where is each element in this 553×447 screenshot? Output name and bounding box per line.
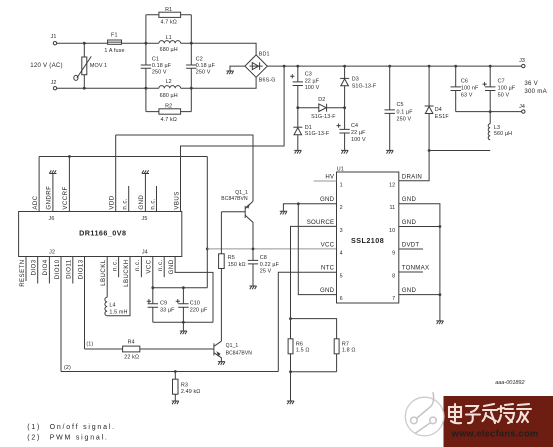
- svg-text:C7: C7: [498, 78, 505, 84]
- wire VDD rail to Q1 emitter: [116, 135, 253, 201]
- svg-text:9: 9: [392, 250, 395, 256]
- svg-text:1.5 mH: 1.5 mH: [109, 309, 127, 315]
- ground below R6 R7: [287, 401, 294, 404]
- svg-text:63 V: 63 V: [461, 92, 473, 98]
- svg-text:LBUCKL: LBUCKL: [100, 259, 107, 286]
- junction dot VCC at C8: [252, 248, 255, 251]
- inductor L2: [159, 79, 181, 99]
- wire C10 ground drop: [182, 322, 184, 331]
- svg-text:DIO13: DIO13: [77, 259, 84, 279]
- svg-text:150 kΩ: 150 kΩ: [228, 262, 246, 268]
- junction dot pin2 link: [297, 202, 300, 205]
- svg-text:ADC: ADC: [32, 195, 39, 209]
- svg-text:C4: C4: [351, 123, 358, 129]
- svg-text:5: 5: [340, 273, 343, 279]
- svg-text:680 µH: 680 µH: [160, 47, 178, 53]
- junction dots VCC net: [151, 248, 208, 324]
- svg-text:L1: L1: [166, 35, 172, 41]
- svg-text:300 mA: 300 mA: [524, 88, 547, 95]
- svg-text:25 V: 25 V: [260, 269, 272, 275]
- svg-text:J2: J2: [49, 249, 55, 255]
- junction dot VCCRF rail: [68, 155, 71, 158]
- svg-text:1.5 Ω: 1.5 Ω: [296, 348, 310, 354]
- ground above GND top: [142, 170, 149, 173]
- svg-text:C9: C9: [160, 301, 167, 307]
- ground above GNDRF: [49, 170, 56, 173]
- resistor R3: [173, 372, 201, 402]
- IC U1 SSL2108: [337, 167, 399, 303]
- svg-text:3: 3: [340, 228, 343, 234]
- svg-text:220 µF: 220 µF: [190, 308, 208, 314]
- svg-text:DIO11: DIO11: [66, 259, 73, 279]
- svg-text:(1): (1): [27, 424, 41, 431]
- label output rating: [524, 80, 547, 95]
- svg-text:R7: R7: [342, 341, 349, 347]
- svg-text:1.8 Ω: 1.8 Ω: [342, 348, 356, 354]
- svg-text:DIO10: DIO10: [54, 259, 61, 279]
- junction dot source rail: [289, 317, 292, 320]
- connector J2 terminal: [51, 80, 57, 90]
- svg-text:B6S-G: B6S-G: [259, 77, 276, 83]
- svg-text:C5: C5: [397, 102, 404, 108]
- svg-text:aaa-001892: aaa-001892: [495, 380, 524, 386]
- ground at bridge left: [226, 71, 233, 74]
- wire J4 rail: [456, 111, 522, 113]
- pin 7 GND wire: [392, 287, 440, 302]
- wire R6 R7 top rail: [291, 319, 337, 339]
- pin 1 HV: [314, 173, 343, 188]
- svg-text:DIO3: DIO3: [31, 259, 38, 275]
- svg-text:www.elecfans.com: www.elecfans.com: [451, 429, 539, 439]
- resistor R4: [123, 339, 140, 360]
- pin LBUCKL: [100, 257, 107, 298]
- svg-text:BC847BVN: BC847BVN: [226, 350, 253, 356]
- svg-text:4: 4: [340, 250, 343, 256]
- svg-text:100 V: 100 V: [305, 85, 320, 91]
- svg-text:On/off signal.: On/off signal.: [50, 424, 116, 431]
- svg-text:VCC: VCC: [146, 259, 153, 273]
- pin VDD: [109, 135, 116, 212]
- svg-text:VBUS: VBUS: [173, 191, 180, 209]
- svg-text:2.49 kΩ: 2.49 kΩ: [181, 389, 201, 395]
- svg-text:HV: HV: [325, 173, 335, 180]
- svg-text:S1G-13-F: S1G-13-F: [352, 83, 377, 89]
- pin RESETN: [19, 257, 26, 287]
- svg-text:8: 8: [392, 273, 395, 279]
- wire VCC row to U1 pin 4: [207, 248, 336, 250]
- diode D3: [340, 66, 377, 108]
- junction dots AC filter: [83, 42, 193, 90]
- note on/off signal: [27, 424, 116, 431]
- pin 2 GND wire and ground: [283, 196, 342, 211]
- watermark chinese glyphs: [449, 404, 531, 423]
- resistor R1: [146, 7, 191, 25]
- svg-text:U1: U1: [337, 167, 344, 173]
- svg-text:4.7 kΩ: 4.7 kΩ: [160, 117, 176, 123]
- wire bottom AC line J2 to bridge: [57, 77, 256, 88]
- ground below C5: [386, 150, 393, 153]
- wire VBUS drop from DC rail: [181, 66, 285, 211]
- svg-text:250 V: 250 V: [196, 70, 211, 76]
- svg-text:0.22 µF: 0.22 µF: [260, 262, 280, 268]
- inductor L1: [159, 35, 181, 53]
- svg-text:GND: GND: [402, 219, 417, 226]
- pin DIO10 wire to PWM line: [54, 257, 61, 372]
- wire bridge left to ground: [230, 66, 245, 71]
- svg-text:1: 1: [340, 183, 343, 189]
- pin VCC wire to C9: [146, 257, 153, 304]
- pin n.c. J4a: [111, 257, 118, 278]
- svg-text:GND: GND: [402, 196, 417, 203]
- IC module DR1166_0V8: [19, 212, 182, 257]
- pin DIO11: [66, 257, 73, 284]
- svg-text:SOURCE: SOURCE: [307, 219, 335, 226]
- ground at pin 2: [280, 211, 287, 214]
- svg-text:R3: R3: [181, 383, 188, 389]
- svg-text:BD1: BD1: [259, 51, 270, 57]
- svg-text:GND: GND: [320, 287, 335, 294]
- note PWM signal: [27, 435, 108, 442]
- svg-text:C10: C10: [190, 301, 200, 307]
- connector J1 terminal: [51, 34, 57, 45]
- svg-text:S1G-13-F: S1G-13-F: [311, 114, 336, 120]
- fuse F1: [104, 33, 124, 54]
- watermark logo circle: [405, 392, 444, 436]
- pin n.c. J5a: [122, 186, 129, 212]
- resistor R2: [146, 104, 191, 124]
- ground below C8: [249, 286, 256, 289]
- svg-text:D3: D3: [352, 77, 359, 83]
- pin n.c. J4b: [134, 257, 141, 278]
- svg-text:DR1166_0V8: DR1166_0V8: [79, 228, 126, 237]
- svg-text:J6: J6: [49, 216, 55, 222]
- svg-text:11: 11: [389, 205, 395, 211]
- capacitor C5: [385, 66, 414, 150]
- svg-text:250 V: 250 V: [397, 116, 412, 122]
- svg-text:C1: C1: [152, 56, 159, 62]
- capacitor C6: [451, 66, 479, 112]
- svg-text:Q1_1: Q1_1: [235, 190, 248, 196]
- wire C9 C10 bottom rail: [153, 321, 213, 323]
- pin 6 GND label: [320, 287, 343, 302]
- svg-text:DVDT: DVDT: [402, 241, 420, 248]
- svg-text:(2): (2): [27, 435, 41, 442]
- svg-text:D4: D4: [435, 107, 442, 113]
- svg-text:VCCRF: VCCRF: [62, 186, 69, 209]
- svg-text:250 V: 250 V: [152, 70, 167, 76]
- wire PWM NTC line: [61, 371, 278, 373]
- svg-text:C2: C2: [196, 56, 203, 62]
- svg-text:0.18 µF: 0.18 µF: [196, 63, 216, 69]
- ground below R3: [172, 401, 179, 404]
- svg-text:560 µH: 560 µH: [494, 131, 512, 137]
- capacitor C10: [176, 288, 208, 323]
- junction dots GND bus: [439, 225, 442, 296]
- wire VCC rail horizontal to riser: [153, 157, 208, 288]
- resistor R7: [334, 339, 355, 372]
- capacitor C7: [483, 66, 516, 112]
- svg-text:R1: R1: [165, 7, 172, 13]
- capacitor C9: [147, 299, 175, 322]
- ground below Q1 lower: [218, 362, 225, 365]
- svg-text:C3: C3: [305, 72, 312, 78]
- pin 3 SOURCE wire: [291, 219, 343, 339]
- svg-text:100 V: 100 V: [351, 137, 366, 143]
- svg-text:GND: GND: [168, 259, 175, 274]
- pin DIO13 wire to on/off line: [77, 257, 84, 350]
- ground below C10: [180, 331, 187, 334]
- svg-text:1 A fuse: 1 A fuse: [104, 48, 124, 54]
- wire ADC/VCCRF rail: [39, 156, 207, 158]
- diode D1: [293, 108, 330, 151]
- svg-text:DIO4: DIO4: [42, 259, 49, 275]
- svg-text:0.1 µF: 0.1 µF: [397, 109, 414, 115]
- svg-text:J1: J1: [51, 34, 57, 40]
- resistor R6: [288, 339, 309, 372]
- svg-text:GNDRF: GNDRF: [46, 186, 53, 210]
- wire DC+ rail to J3: [267, 65, 521, 67]
- svg-text:J5: J5: [142, 216, 148, 222]
- svg-text:R2: R2: [165, 104, 172, 110]
- wire R4 to Q1 base: [140, 348, 214, 350]
- svg-text:VCC: VCC: [321, 241, 335, 248]
- svg-text:4.7 kΩ: 4.7 kΩ: [160, 20, 176, 26]
- svg-text:F1: F1: [111, 33, 118, 39]
- svg-text:n.c.: n.c.: [134, 259, 141, 271]
- wire on/off line to R4: [85, 348, 123, 350]
- inductor L3: [488, 112, 512, 140]
- svg-text:S1G-13-F: S1G-13-F: [305, 131, 330, 137]
- svg-text:7: 7: [392, 296, 395, 302]
- svg-text:GND: GND: [320, 196, 335, 203]
- varistor MOV1: [74, 43, 107, 88]
- svg-text:(2): (2): [64, 365, 71, 371]
- svg-text:C8: C8: [260, 255, 267, 261]
- pin DIO3: [31, 257, 38, 284]
- svg-text:D1: D1: [305, 125, 312, 131]
- pin 4 VCC label: [321, 241, 343, 256]
- svg-text:RESETN: RESETN: [19, 259, 26, 286]
- svg-text:NTC: NTC: [321, 265, 335, 272]
- svg-text:SSL2108: SSL2108: [351, 236, 384, 245]
- capacitor C8: [248, 249, 280, 286]
- svg-text:L4: L4: [109, 302, 115, 308]
- svg-text:120 V (AC): 120 V (AC): [30, 62, 63, 69]
- svg-text:J2: J2: [51, 80, 57, 86]
- svg-text:100 nF: 100 nF: [461, 85, 479, 91]
- svg-text:J3: J3: [519, 58, 525, 64]
- svg-text:n.c.: n.c.: [122, 198, 129, 210]
- svg-text:50 V: 50 V: [498, 92, 510, 98]
- pin 10 GND wire: [389, 219, 440, 234]
- junction dot R3 top: [174, 370, 177, 373]
- capacitor C2: [186, 15, 216, 112]
- resistor R5: [219, 212, 246, 341]
- svg-text:n.c.: n.c.: [149, 198, 156, 210]
- capacitor C4: [337, 108, 367, 151]
- svg-text:R4: R4: [128, 339, 135, 345]
- transistor Q1_1 upper BC847BVN: [221, 190, 253, 249]
- svg-text:J4: J4: [519, 104, 525, 110]
- pin DIO4: [42, 257, 49, 284]
- wire L4 loop to LBUCKH: [107, 257, 130, 316]
- svg-text:36 V: 36 V: [524, 80, 538, 87]
- svg-text:D2: D2: [318, 97, 325, 103]
- svg-text:TONMAX: TONMAX: [402, 265, 429, 272]
- pin ADC: [32, 157, 39, 212]
- svg-text:GND: GND: [138, 195, 145, 210]
- svg-text:680 µH: 680 µH: [160, 93, 178, 99]
- ground below GND bus: [436, 321, 443, 324]
- connector J4 terminal: [519, 104, 525, 113]
- diode D4: [425, 66, 450, 150]
- svg-text:22 µF: 22 µF: [305, 79, 320, 85]
- svg-text:R6: R6: [296, 341, 303, 347]
- svg-text:2: 2: [340, 205, 343, 211]
- pin GND bottom wire: [168, 257, 213, 323]
- capacitor C3: [290, 66, 320, 108]
- svg-text:MOV 1: MOV 1: [90, 63, 107, 69]
- pin VCCRF: [62, 157, 69, 212]
- pin 8 TONMAX stub: [392, 265, 429, 280]
- svg-text:PWM signal.: PWM signal.: [50, 435, 109, 442]
- capacitor C1: [141, 15, 172, 112]
- svg-text:LBUCKH: LBUCKH: [123, 259, 130, 286]
- wire top AC line J1 to bridge: [57, 43, 256, 55]
- junction dot R6 bottom: [289, 370, 292, 373]
- pin 5 NTC wire: [278, 265, 342, 372]
- svg-text:L2: L2: [166, 79, 172, 85]
- wire R6 R7 bottom rail and ground drop: [291, 372, 337, 401]
- transistor Q1_1 lower BC847BVN: [214, 341, 252, 361]
- svg-text:10: 10: [389, 228, 395, 234]
- pin GNDRF: [46, 174, 53, 212]
- svg-text:BC847BVN: BC847BVN: [221, 196, 248, 202]
- svg-text:C6: C6: [461, 78, 468, 84]
- pin 11 GND wire: [389, 196, 439, 321]
- pin n.c. J5b: [149, 186, 156, 212]
- svg-text:22 kΩ: 22 kΩ: [124, 355, 139, 361]
- inductor L4: [105, 297, 128, 315]
- ground below C4: [341, 150, 348, 153]
- wire D4 column to DRAIN pin and L3 bottom: [399, 151, 490, 181]
- bridge rectifier BD1: [245, 51, 276, 83]
- svg-text:6: 6: [340, 296, 343, 302]
- svg-text:L3: L3: [494, 125, 500, 131]
- svg-text:Q1_1: Q1_1: [226, 343, 239, 349]
- diode D2: [298, 97, 345, 120]
- svg-text:100 µF: 100 µF: [498, 85, 516, 91]
- svg-text:33 µF: 33 µF: [160, 308, 175, 314]
- ground below D1: [294, 150, 301, 153]
- pin 12 DRAIN label: [389, 173, 422, 188]
- pin GND top: [138, 174, 145, 212]
- svg-text:n.c.: n.c.: [111, 259, 118, 271]
- svg-text:DRAIN: DRAIN: [402, 173, 422, 180]
- svg-text:n.c.: n.c.: [157, 259, 164, 271]
- svg-text:GND: GND: [402, 287, 417, 294]
- svg-text:ES1F: ES1F: [435, 114, 450, 120]
- watermark red box: [444, 396, 553, 447]
- junction dots DC rail: [283, 65, 492, 152]
- wire GND pins 2-6 link: [298, 204, 336, 295]
- svg-text:12: 12: [389, 183, 395, 189]
- pin n.c. J4c: [157, 257, 164, 278]
- svg-text:0.18 µF: 0.18 µF: [152, 63, 172, 69]
- connector J3 terminal: [519, 58, 525, 68]
- svg-text:J4: J4: [142, 249, 148, 255]
- svg-text:VDD: VDD: [109, 195, 116, 209]
- pin 9 DVDT stub: [392, 241, 423, 256]
- svg-text:(1): (1): [86, 342, 93, 348]
- svg-text:R5: R5: [228, 255, 235, 261]
- svg-text:22 µF: 22 µF: [351, 130, 366, 136]
